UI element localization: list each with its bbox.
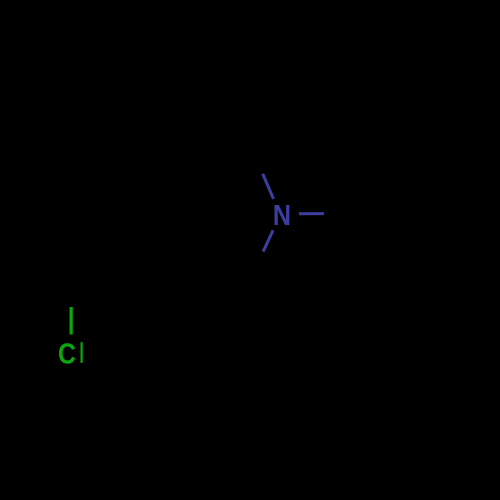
bond Cl-C (chlorine half, green) <box>70 307 73 335</box>
bond N-C right (nitrogen half, blue) <box>299 212 324 215</box>
svg-text:N: N <box>273 198 291 231</box>
svg-text:C: C <box>58 338 76 370</box>
bond N-C upper-left (nitrogen half, blue) <box>263 174 274 199</box>
bond N-C lower-left (nitrogen half, blue) <box>263 230 273 251</box>
